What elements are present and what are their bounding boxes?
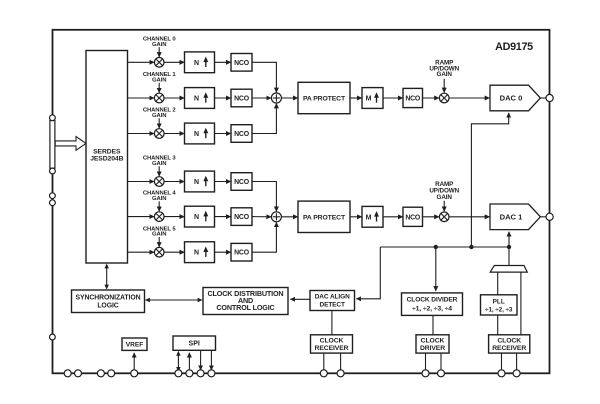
wire trapezoid to PLL: [497, 272, 499, 295]
CLOCK RECEIVER block (DAC clock): [489, 335, 530, 353]
bottom border pin 2: [75, 370, 82, 377]
summer (adder) for DAC 1: [271, 212, 281, 222]
svg-text:CLOCK: CLOCK: [497, 337, 521, 344]
SPI SDO wire (output): [200, 350, 202, 370]
pin CS: [208, 370, 215, 377]
wire clock divider to clock driver: [432, 315, 434, 334]
interpolation filter N (channel 4): [185, 206, 215, 227]
channel 5 gain multiplier: [154, 247, 164, 257]
svg-text:GAIN: GAIN: [152, 161, 166, 167]
bidirectional arrow synchronization logic to control logic: [145, 298, 203, 302]
svg-text:SPI: SPI: [189, 340, 200, 347]
arrow from channel 2 gain label into multiplier: [158, 118, 160, 128]
DAC ALIGN DETECT block: [310, 291, 355, 311]
VREF block: [122, 338, 147, 350]
svg-text:N: N: [194, 131, 199, 138]
channel 3 gain multiplier: [154, 177, 164, 187]
wire SERDES to channel 1 multiplier: [128, 97, 155, 99]
pin CLK-: [513, 370, 520, 377]
svg-text:CLOCK: CLOCK: [421, 337, 445, 344]
channel 1 gain multiplier: [154, 93, 164, 103]
NCO block channel 5: [231, 243, 252, 261]
pin SYSREF+: [320, 370, 327, 377]
wire SERDES to channel 5 multiplier: [128, 251, 155, 253]
summer (adder) for DAC 0: [271, 93, 281, 103]
svg-text:CLOCK: CLOCK: [320, 337, 344, 344]
svg-text:GAIN: GAIN: [152, 232, 166, 238]
bottom border pin 3: [97, 370, 104, 377]
CLOCK DRIVER block: [416, 335, 449, 353]
interpolation filter N (channel 2): [185, 123, 215, 144]
junction dot at DAC0 clock branch: [469, 245, 473, 249]
wire PA PROTECT to M interpolator 1: [350, 216, 362, 218]
pin VREF: [131, 370, 138, 377]
channel 4 gain label: [143, 191, 177, 202]
wire multiplier to interpolator channel 2: [164, 133, 184, 135]
wire multiplier to interpolator channel 0: [164, 61, 184, 63]
svg-text:N: N: [194, 96, 199, 103]
svg-text:NCO: NCO: [405, 96, 421, 103]
NCO block channel 4: [231, 208, 252, 226]
svg-text:LOGIC: LOGIC: [97, 303, 118, 310]
svg-text:GAIN: GAIN: [152, 113, 166, 119]
wire multiplier to interpolator channel 5: [164, 251, 184, 253]
channel 4 gain multiplier: [154, 212, 164, 222]
svg-text:AD9175: AD9175: [495, 41, 533, 53]
pin CLKOUT-: [438, 370, 445, 377]
wire NCO bottom row to summer 0 (up): [252, 104, 276, 134]
svg-text:SYNCHRONIZATION: SYNCHRONIZATION: [76, 295, 141, 302]
SYNCHRONIZATION LOGIC block: [72, 290, 145, 313]
NCO block channel 3: [231, 173, 252, 191]
wire multiplier to interpolator channel 4: [164, 216, 184, 218]
block arrow from input bus into SERDES: [55, 137, 86, 151]
svg-text:JESD204B: JESD204B: [90, 155, 123, 162]
wire interpolator to NCO channel 1: [215, 97, 231, 99]
wire NCO middle row to summer 0: [252, 97, 271, 99]
interpolation filter M (DAC 1): [362, 206, 383, 227]
svg-text:PA PROTECT: PA PROTECT: [303, 214, 346, 221]
DAC 0 output pin: [546, 94, 553, 101]
svg-text:N: N: [194, 214, 199, 221]
channel 3 gain label: [143, 156, 177, 167]
bottom border pin 4: [108, 370, 115, 377]
svg-text:CONTROL LOGIC: CONTROL LOGIC: [216, 303, 274, 312]
SERDES input bus bar on left border: [50, 121, 55, 169]
pin TXEN on left border: [50, 334, 56, 340]
NCO block (DAC 0 path): [403, 88, 423, 107]
wire NCO top row to summer 0 (down): [252, 62, 276, 92]
wire summer to PA PROTECT 1: [281, 216, 297, 218]
svg-text:N: N: [194, 179, 199, 186]
bidirectional arrow SERDES to synchronization logic: [105, 263, 109, 289]
interpolation filter N (channel 1): [185, 88, 215, 109]
SPI CS wire (output): [210, 350, 212, 370]
SPI block: [173, 336, 216, 350]
svg-text:NCO: NCO: [234, 214, 250, 221]
svg-text:GAIN: GAIN: [152, 42, 166, 48]
wire DAC 0 to output pin: [540, 97, 546, 99]
RAMP UP/DOWN GAIN label (DAC 0): [429, 60, 459, 79]
wire clock net up to DAC 0 clock input: [471, 113, 508, 247]
pin CLKOUT+: [422, 370, 429, 377]
RAMP UP/DOWN GAIN label (DAC 1): [429, 181, 459, 201]
pin SYSREF-: [337, 370, 344, 377]
wire PLL to clock receiver: [497, 315, 499, 335]
CLOCK DIVIDER block: [402, 293, 463, 316]
svg-text:VREF: VREF: [126, 342, 144, 349]
wire SERDES to channel 0 multiplier: [128, 61, 155, 63]
wire sysref receiver to SYSREF- pin: [340, 353, 342, 370]
wire clock receiver to CLK+ pin: [501, 353, 503, 370]
junction dot at DAC1 clock branch: [507, 245, 511, 249]
wire SERDES to channel 2 multiplier: [128, 133, 155, 135]
arrow from ramp label into multiplier (DAC 1): [443, 201, 445, 211]
svg-text:RECEIVER: RECEIVER: [492, 345, 526, 352]
pin SERDINx+ (top of bus): [50, 115, 56, 121]
wire clock net up to DAC 1 clock input: [508, 232, 510, 247]
wire PA PROTECT to M interpolator 0: [350, 97, 362, 99]
svg-text:NCO: NCO: [234, 60, 250, 67]
wire multiplier to DAC 1: [449, 216, 489, 218]
PA PROTECT block 1: [298, 201, 350, 232]
wire multiplier to interpolator channel 1: [164, 97, 184, 99]
channel 0 gain multiplier: [154, 58, 164, 68]
ramp up/down gain multiplier (DAC 1): [439, 212, 449, 222]
bottom border pin 1: [64, 370, 71, 377]
svg-text:÷1, ÷2, ÷3, ÷4: ÷1, ÷2, ÷3, ÷4: [412, 305, 452, 312]
wire clock net to CLOCK DIVIDER: [435, 247, 437, 291]
wire DAC ALIGN DETECT to clock receiver (sysref): [331, 311, 333, 335]
DAC 1 output pin: [546, 213, 553, 220]
svg-text:N: N: [194, 60, 199, 67]
wire NCO to ramp gain multiplier (DAC 0): [423, 97, 439, 99]
arrow DAC ALIGN DETECT to control logic: [290, 298, 310, 300]
channel 5 gain label: [143, 226, 177, 237]
wire interpolator to NCO channel 2: [215, 133, 231, 135]
wire summer to PA PROTECT 0: [281, 97, 297, 99]
svg-text:NCO: NCO: [234, 96, 250, 103]
ramp up/down gain multiplier (DAC 0): [439, 93, 449, 103]
SPI SCLK wire (input): [188, 353, 190, 374]
wire NCO to ramp gain multiplier (DAC 1): [423, 216, 439, 218]
junction dot at clock divider branch: [434, 245, 438, 249]
wire NCO bottom row to summer 1 (up): [252, 222, 276, 252]
pin CLK+: [498, 370, 505, 377]
arrow from channel 3 gain label into multiplier: [158, 166, 160, 176]
wire clock driver to CLKOUT- pin: [440, 353, 442, 370]
CLOCK DISTRIBUTION AND CONTROL LOGIC block: [203, 288, 288, 315]
wire interpolator to NCO channel 0: [215, 61, 231, 63]
wire M to NCO (DAC 0): [383, 97, 403, 99]
svg-text:N: N: [194, 250, 199, 257]
NCO block (DAC 1 path): [403, 207, 423, 226]
chip boundary border: [53, 30, 550, 374]
wire clock receiver to CLK- pin: [516, 353, 518, 370]
arrow from ramp label into multiplier (DAC 0): [443, 79, 445, 93]
PA PROTECT block 0: [298, 82, 350, 113]
clock distribution net horizontal wire: [380, 246, 509, 248]
pin SYNCINB+: [50, 193, 56, 199]
svg-text:NCO: NCO: [405, 214, 421, 221]
svg-text:÷1, ÷2, ÷3: ÷1, ÷2, ÷3: [485, 306, 513, 313]
channel 2 gain label: [143, 108, 177, 119]
pin SDIO: [175, 370, 182, 377]
wire NCO top row to summer 1 (down): [252, 182, 276, 212]
svg-text:DAC 0: DAC 0: [500, 94, 523, 103]
channel 2 gain multiplier: [154, 129, 164, 139]
wire sysref receiver to SYSREF+ pin: [323, 353, 325, 370]
wire clock driver to CLKOUT+ pin: [425, 353, 427, 370]
svg-text:DETECT: DETECT: [319, 301, 345, 308]
pin SCLK: [186, 370, 193, 377]
wire multiplier to interpolator channel 3: [164, 181, 184, 183]
SPI SDIO bidirectional wire: [176, 351, 180, 372]
NCO block channel 2: [231, 125, 252, 143]
svg-text:NCO: NCO: [234, 250, 250, 257]
svg-text:DRIVER: DRIVER: [420, 345, 445, 352]
arrow from channel 0 gain label into multiplier: [158, 47, 160, 57]
wire M to NCO (DAC 1): [383, 216, 403, 218]
svg-text:CLOCK DIVIDER: CLOCK DIVIDER: [407, 296, 458, 303]
wire clock net down to DAC ALIGN DETECT: [356, 247, 380, 299]
svg-text:M: M: [366, 214, 372, 221]
PLL divider block: [481, 295, 518, 315]
NCO block channel 1: [231, 89, 252, 107]
svg-text:PA PROTECT: PA PROTECT: [303, 96, 346, 103]
pin SDO: [197, 370, 204, 377]
channel 1 gain label: [143, 72, 177, 83]
CLOCK RECEIVER block (SYSREF): [311, 335, 353, 353]
svg-text:PLL: PLL: [493, 298, 505, 305]
DAC 1 block: [490, 204, 540, 230]
wire interpolator to NCO channel 5: [215, 251, 231, 253]
wire clock net down to distribution trapezoid: [508, 247, 510, 266]
pin SYNCINB-: [50, 200, 56, 206]
svg-text:M: M: [366, 96, 372, 103]
wire SERDES to channel 4 multiplier: [128, 216, 155, 218]
svg-text:GAIN: GAIN: [437, 71, 453, 78]
pin SERDINx- (bottom of bus): [50, 168, 56, 174]
interpolation filter N (channel 0): [185, 52, 215, 73]
svg-text:NCO: NCO: [234, 179, 250, 186]
DAC 0 block: [490, 85, 540, 111]
svg-text:DAC 1: DAC 1: [500, 213, 524, 222]
wire SERDES to channel 3 multiplier: [128, 181, 155, 183]
wire interpolator to NCO channel 4: [215, 216, 231, 218]
wire trapezoid bypass to clock receiver: [520, 272, 522, 335]
wire NCO middle row to summer 1: [252, 216, 271, 218]
wire DAC 1 to output pin: [540, 216, 546, 218]
SERDES JESD204B block: [86, 51, 128, 264]
svg-text:RECEIVER: RECEIVER: [315, 345, 349, 352]
arrow from channel 4 gain label into multiplier: [158, 201, 160, 211]
interpolation filter M (DAC 0): [362, 88, 383, 109]
arrow from channel 5 gain label into multiplier: [158, 237, 160, 247]
svg-text:GAIN: GAIN: [437, 194, 453, 201]
NCO block channel 0: [231, 54, 252, 72]
interpolation filter N (channel 5): [185, 242, 215, 263]
svg-text:GAIN: GAIN: [152, 196, 166, 202]
channel 0 gain label: [143, 36, 177, 47]
arrow VREF pin into VREF block: [133, 353, 135, 370]
arrow from channel 1 gain label into multiplier: [158, 83, 160, 93]
clock buffer trapezoid: [490, 266, 527, 273]
svg-text:DAC ALIGN: DAC ALIGN: [315, 294, 350, 301]
wire multiplier to DAC 0: [449, 97, 489, 99]
svg-text:GAIN: GAIN: [152, 78, 166, 84]
svg-text:NCO: NCO: [234, 131, 250, 138]
wire interpolator to NCO channel 3: [215, 181, 231, 183]
interpolation filter N (channel 3): [185, 171, 215, 192]
